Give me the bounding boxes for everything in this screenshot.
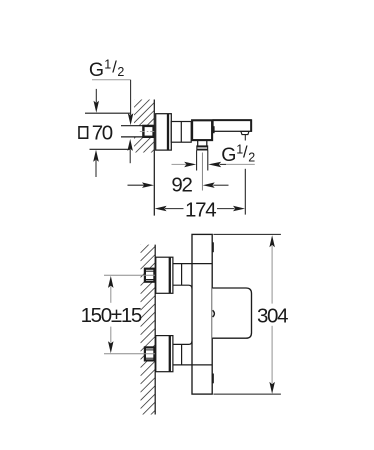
pipe lower arrow (G1/2) — [127, 139, 132, 163]
svg-text:150±15: 150±15 — [81, 304, 142, 327]
text 150±15 — [81, 304, 142, 327]
upper escutcheon (front view) — [156, 257, 173, 293]
wall hatching (front view) — [141, 230, 156, 433]
diverter knob mark — [213, 310, 215, 317]
aerator extension line (174 right) — [244, 135, 246, 215]
dim 70 lower arrow — [93, 150, 99, 177]
dim 304 — [269, 235, 275, 394]
outlet centre line — [201, 153, 203, 191]
text 304 — [257, 304, 288, 327]
text 70 — [92, 121, 113, 144]
column joint line lower — [192, 364, 212, 366]
square symbol for 70 — [79, 127, 88, 138]
lower neck and boss — [173, 341, 212, 365]
upper neck and boss — [173, 264, 212, 289]
svg-text:G: G — [89, 59, 104, 81]
escutcheon (top view) — [156, 114, 172, 150]
chamfer tick upper — [212, 242, 214, 252]
dim 150±15 — [108, 276, 114, 353]
collar extension lines — [197, 150, 208, 170]
dim 174 — [155, 206, 245, 212]
dim 304 extension bottom — [213, 393, 281, 395]
spout (top view) — [213, 120, 252, 131]
spout seam bump on block right edge — [213, 126, 215, 133]
extension line square bottom (70) — [90, 148, 131, 150]
shower outlet collar G1/2 — [196, 145, 208, 150]
dim 92 — [128, 182, 229, 188]
svg-text:G: G — [221, 144, 236, 166]
leader bracket for G1/2 top — [92, 80, 133, 125]
text 92 — [171, 173, 192, 196]
thermostat block protrusion — [212, 288, 251, 338]
svg-text:2: 2 — [248, 150, 255, 164]
dim 304 extension top — [213, 233, 281, 235]
svg-text:70: 70 — [92, 121, 113, 144]
wall hatching (top view) — [134, 79, 154, 177]
text 174 — [185, 199, 216, 222]
svg-text:92: 92 — [171, 173, 192, 196]
wall line (top view) — [153, 100, 155, 216]
svg-text:174: 174 — [185, 199, 216, 222]
body tube (top view) — [171, 122, 191, 143]
label G1/2 (top left) — [89, 57, 125, 81]
outlet G1/2 arrows and underline — [172, 162, 255, 168]
label G1/2 (outlet) — [221, 142, 255, 166]
upper inlet centre line — [104, 274, 155, 276]
nut centre line (dash-dot) — [140, 130, 154, 132]
lower inlet centre line — [104, 353, 155, 355]
svg-text:2: 2 — [117, 65, 124, 79]
lower inlet nut — [145, 347, 155, 360]
lower escutcheon (front view) — [156, 336, 173, 372]
wall line (front view) — [154, 245, 156, 415]
cartridge block (top view) — [192, 120, 212, 140]
upper inlet nut — [145, 269, 155, 282]
chamfer tick lower — [212, 374, 214, 384]
union nut behind wall — [143, 126, 153, 137]
concealed pipe behind wall — [121, 126, 143, 137]
column joint line upper — [192, 263, 212, 265]
svg-text:1: 1 — [104, 57, 111, 71]
dim 70 upper arrow — [94, 89, 100, 113]
shower outlet neck — [198, 141, 207, 146]
svg-text:304: 304 — [257, 304, 288, 327]
aerator under spout end — [241, 131, 249, 134]
body column (front view) — [192, 234, 212, 394]
extension line square top (70) — [85, 112, 131, 114]
